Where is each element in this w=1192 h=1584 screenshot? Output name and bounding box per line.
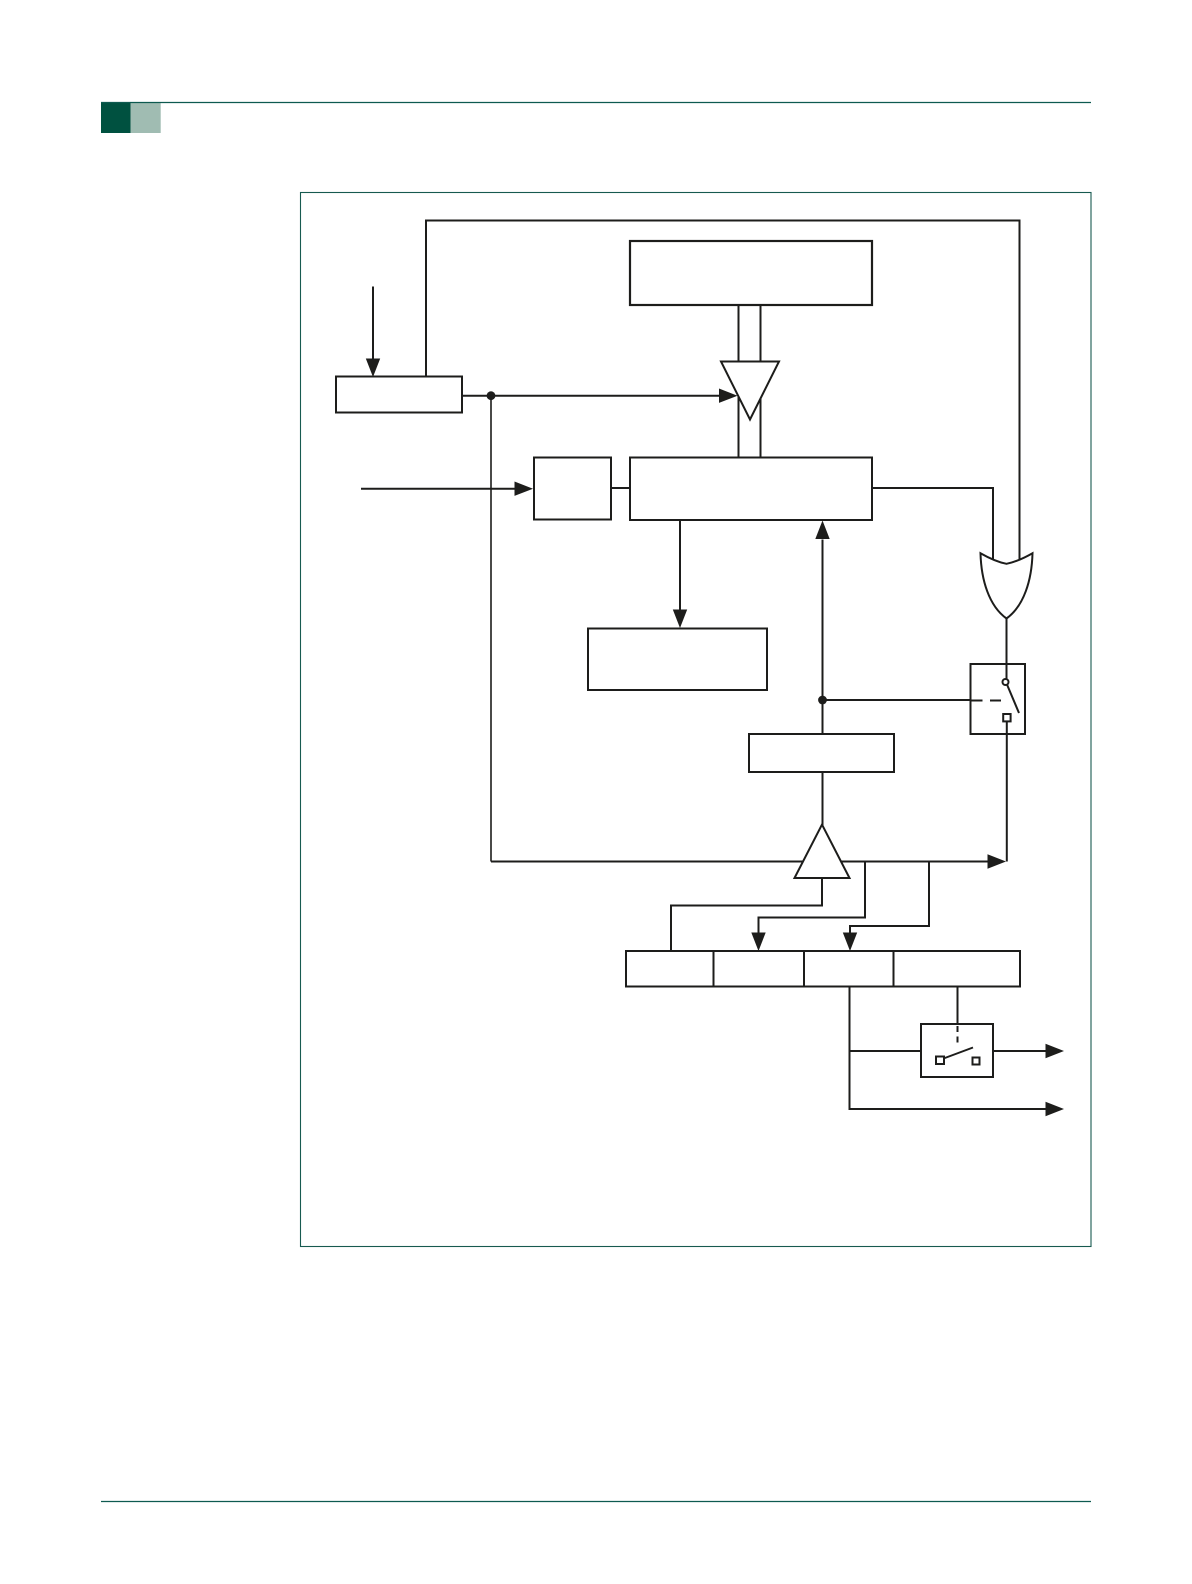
wire SW1 output down bbox=[1006, 721, 1008, 861]
wire left box to node A bbox=[462, 395, 491, 397]
arrowhead down into left box bbox=[366, 359, 380, 378]
arrowhead right bottom output bbox=[1046, 1102, 1065, 1116]
arrowhead right into buffer bbox=[719, 389, 738, 403]
wire long left vertical bbox=[490, 396, 492, 862]
wire node B to switch SW1 bbox=[823, 699, 971, 701]
switch SW2 dashed control line bbox=[957, 1026, 959, 1045]
box middle small bbox=[534, 458, 611, 520]
switch SW2 box bbox=[921, 1024, 993, 1077]
arrowhead down into slicer box2 bbox=[751, 933, 765, 952]
wire vertical through node B up to middle box bbox=[822, 540, 824, 735]
wire amp base to slicer box1 bbox=[671, 878, 822, 951]
header light sage square bbox=[131, 103, 161, 133]
wire bus left line bbox=[738, 305, 740, 458]
amp triangle up T2 bbox=[795, 825, 850, 879]
switch SW2 right contact square bbox=[973, 1058, 980, 1065]
box left small bbox=[336, 377, 462, 413]
wire node A to buffer with arrow bbox=[491, 395, 720, 397]
wire branch to slicer box3 bbox=[850, 862, 929, 934]
switch SW1 bottom contact square bbox=[1003, 714, 1010, 721]
register row divider 2 bbox=[803, 951, 805, 987]
switch SW1 box bbox=[971, 664, 1026, 734]
wire connector between middle boxes bbox=[611, 487, 630, 489]
arrowhead down into slicer box3 bbox=[843, 933, 857, 952]
arrowhead right SW2 output bbox=[1046, 1044, 1065, 1058]
box register row bbox=[626, 951, 1020, 987]
wire branch to slicer box2 bbox=[759, 862, 866, 934]
wire SW2 output bbox=[993, 1050, 1046, 1052]
node B junction dot bbox=[818, 696, 827, 705]
switch SW1 top contact circle bbox=[1003, 679, 1009, 685]
header rule bbox=[101, 102, 1091, 104]
wire bus right line bbox=[760, 305, 762, 458]
wire branch into SW2 bbox=[850, 1050, 922, 1052]
switch SW1 dashed control line bbox=[972, 700, 1002, 702]
wire OR gate output to SW1 bbox=[1006, 619, 1008, 680]
arrowhead right at switch drop wire bbox=[988, 854, 1007, 868]
switch SW2 lever bbox=[944, 1048, 974, 1059]
node A junction dot bbox=[487, 391, 496, 400]
register row divider 3 bbox=[893, 951, 895, 987]
wire input arrow into middle small box bbox=[361, 488, 515, 490]
wire middle large box right to OR gate bbox=[872, 488, 993, 562]
wire input arrow into left box bbox=[372, 287, 374, 360]
footer rule bbox=[101, 1501, 1091, 1503]
header dark green square bbox=[101, 103, 131, 133]
or-gate G1 bbox=[981, 553, 1033, 618]
box middle large bbox=[630, 458, 872, 521]
arrowhead up into middle large box bbox=[815, 521, 829, 540]
register row divider 1 bbox=[713, 951, 715, 987]
arrowhead right into middle small box bbox=[515, 482, 534, 496]
switch SW2 left contact square bbox=[936, 1057, 944, 1065]
box thin above amp bbox=[749, 734, 894, 772]
switch SW1 lever bbox=[1007, 685, 1019, 713]
wire long horizontal to amp row bbox=[491, 861, 988, 863]
arrowhead down into lower box bbox=[673, 610, 687, 629]
wire middle large box down to lower box bbox=[679, 521, 681, 611]
wire register row to bottom output bbox=[850, 987, 1046, 1110]
figure border frame bbox=[301, 193, 1092, 1247]
wire feedback top loop bbox=[426, 221, 1020, 563]
wire register row into SW2 top bbox=[957, 987, 959, 1025]
box lower bbox=[588, 629, 767, 691]
box register top bbox=[630, 241, 872, 305]
buffer triangle down U1 bbox=[721, 362, 779, 420]
wire thin box to amp apex bbox=[822, 772, 824, 825]
